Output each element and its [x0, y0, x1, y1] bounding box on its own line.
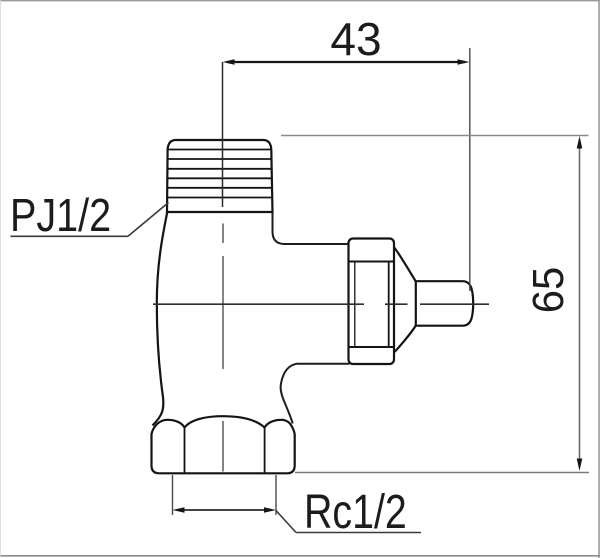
- vertical centerline of body: [222, 224, 224, 472]
- svg-text:65: 65: [524, 267, 573, 313]
- arrowhead top: [577, 136, 583, 149]
- arrowhead left: [223, 59, 235, 65]
- bottom hex nut (Rc1/2 socket): [152, 416, 295, 473]
- nut facet line right: [264, 428, 266, 473]
- leader underline: [11, 235, 129, 237]
- page border lines: [0, 0, 600, 2]
- extension line right: [469, 48, 471, 291]
- arrowhead bottom: [577, 459, 583, 472]
- label PJ1/2: [10, 190, 169, 241]
- outlet stub pipe with domed end: [416, 281, 473, 326]
- dimension line: [227, 61, 465, 63]
- extension line left (body centerline above): [222, 62, 224, 207]
- leader diagonal to thread flank: [128, 203, 169, 237]
- svg-text:43: 43: [330, 13, 381, 65]
- thread crest lines: [167, 150, 272, 198]
- body left edge wire: [153, 211, 168, 426]
- body right edge lower (outlet bottom to flare) wire: [281, 364, 350, 424]
- extension line right below nut: [275, 475, 277, 515]
- dimension 65: [281, 136, 589, 473]
- nut facet line left: [184, 428, 186, 473]
- outlet reducer cone: [393, 247, 416, 353]
- dimension 43: [223, 13, 470, 291]
- extension line bottom (continues nut bottom edge): [295, 472, 589, 474]
- arrowhead right: [264, 507, 276, 513]
- dimension line: [177, 509, 272, 511]
- extension line top: [281, 135, 589, 137]
- arrowhead right: [458, 59, 470, 65]
- valve body: [152, 211, 360, 434]
- dimension line: [579, 140, 581, 467]
- svg-text:PJ1/2: PJ1/2: [10, 190, 111, 241]
- horizontal centerline of side outlet: [153, 303, 489, 305]
- extension line left below nut: [172, 475, 174, 515]
- arrowhead left: [173, 507, 185, 513]
- dimension Rc1/2 width: [173, 475, 277, 515]
- label Rc1/2: [276, 485, 421, 539]
- leader underline: [296, 532, 421, 534]
- PJ1/2 male thread section: [167, 140, 273, 212]
- outlet hex nut: [349, 239, 395, 365]
- leader diagonal from arrow: [276, 511, 296, 533]
- body right edge upper (fillet to outlet top) wire: [273, 211, 350, 244]
- svg-text:Rc1/2: Rc1/2: [304, 485, 407, 539]
